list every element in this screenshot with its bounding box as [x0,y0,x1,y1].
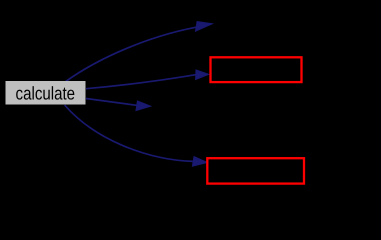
arrowhead calculate->Node3 [196,70,209,80]
edge calculate->Node4 (short middle) [86,99,137,106]
node Node5 truncated box (red border, bottom) [207,158,304,183]
node calculate (root, grey filled) [6,81,86,105]
edge calculate->Node5 (bottom, spline) [65,105,194,161]
edge calculate->Node3 (to middle red box) [86,75,196,89]
arrowhead calculate->Node4 [136,101,151,111]
edge calculate->Node2 (top, spline) [66,27,197,81]
svg-text:calculate: calculate [16,83,76,104]
arrowhead calculate->Node5 [192,157,207,167]
node Node3 truncated box (red border, middle) [211,57,302,82]
arrowhead calculate->Node2 [196,22,213,32]
